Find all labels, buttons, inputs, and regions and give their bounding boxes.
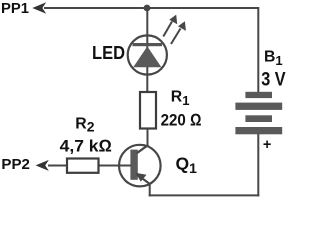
wire emitter vertical xyxy=(149,184,151,197)
svg-text:3 V: 3 V xyxy=(261,69,286,90)
wire PP2 to R2 xyxy=(48,165,67,167)
LED D1 circle xyxy=(128,35,167,74)
resistor R2 body xyxy=(67,159,99,173)
transistor Q1 emitter stroke xyxy=(137,175,150,185)
battery B1 plate 4 (long) xyxy=(235,127,282,134)
wire battery bottom vertical xyxy=(257,134,259,196)
LED triangle (anode, pointing up) xyxy=(133,46,161,67)
svg-text:LED: LED xyxy=(92,43,125,63)
svg-text:R2: R2 xyxy=(75,116,94,135)
junction dot xyxy=(144,5,151,12)
transistor Q1 collector stroke xyxy=(137,145,149,153)
LED emission arrow 2 xyxy=(171,21,186,44)
battery B1 plate 2 (long) xyxy=(235,103,282,110)
LED emission arrow 1 xyxy=(163,15,177,37)
svg-text:PP2: PP2 xyxy=(1,156,29,173)
battery B1 plate 1 (short) xyxy=(245,92,272,98)
node PP2 arrowhead xyxy=(36,160,49,171)
wire base to R2 xyxy=(98,165,132,167)
LED cathode bar xyxy=(133,43,163,46)
wire right vertical (top to battery) xyxy=(257,7,259,92)
svg-text:PP1: PP1 xyxy=(1,0,29,17)
wire bottom rail xyxy=(149,194,260,196)
transistor Q1 base bar xyxy=(130,150,137,180)
node PP1 arrowhead xyxy=(32,2,46,14)
transistor Q1 circle xyxy=(119,145,161,187)
battery B1 plate 3 (short) xyxy=(245,115,272,122)
wire R1 to Q1 collector xyxy=(147,129,149,146)
transistor Q1 emitter arrowhead (PNP, points to base bar) xyxy=(135,173,146,182)
svg-text:+: + xyxy=(263,137,271,153)
resistor R1 body xyxy=(140,92,156,129)
wire top rail xyxy=(44,7,258,9)
wire LED branch vertical xyxy=(146,8,148,93)
svg-text:4,7 kΩ: 4,7 kΩ xyxy=(60,137,112,156)
svg-text:220 Ω: 220 Ω xyxy=(161,111,202,130)
